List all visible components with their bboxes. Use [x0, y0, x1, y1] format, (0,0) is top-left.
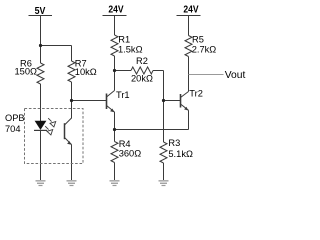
svg-text:Tr1: Tr1 — [116, 90, 130, 100]
svg-text:OPB: OPB — [5, 113, 25, 123]
svg-text:20kΩ: 20kΩ — [131, 74, 153, 84]
svg-text:R3: R3 — [168, 138, 180, 148]
svg-text:2.7kΩ: 2.7kΩ — [192, 44, 217, 54]
svg-text:704: 704 — [5, 124, 21, 134]
svg-text:R1: R1 — [118, 34, 130, 44]
svg-text:24V: 24V — [108, 5, 123, 16]
svg-text:10kΩ: 10kΩ — [75, 67, 97, 77]
svg-text:R4: R4 — [119, 139, 131, 149]
svg-text:Tr2: Tr2 — [189, 88, 203, 98]
svg-text:5.1kΩ: 5.1kΩ — [168, 149, 193, 159]
svg-text:Vout: Vout — [225, 70, 246, 81]
svg-text:360Ω: 360Ω — [119, 149, 142, 159]
svg-text:24V: 24V — [183, 5, 198, 16]
svg-text:5V: 5V — [35, 6, 46, 17]
svg-text:150Ω: 150Ω — [15, 67, 38, 77]
svg-text:R5: R5 — [192, 34, 204, 44]
svg-text:R2: R2 — [136, 56, 148, 66]
svg-text:1.5kΩ: 1.5kΩ — [118, 44, 143, 54]
